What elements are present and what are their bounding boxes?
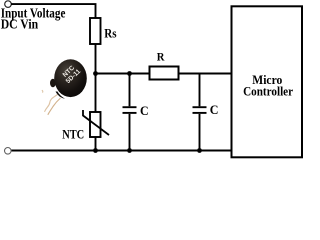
svg-text:DC Vin: DC Vin bbox=[1, 17, 39, 32]
svg-text:R: R bbox=[157, 50, 165, 64]
resistor Rs bbox=[90, 18, 101, 44]
svg-text:Rs: Rs bbox=[104, 27, 116, 41]
wire: node A to resistor R bbox=[96, 73, 151, 75]
junction dot NTC-ground bbox=[93, 148, 98, 153]
input terminal (open circle top-left) bbox=[5, 1, 12, 8]
wire: input terminal to resistor Rs top bbox=[11, 4, 96, 18]
svg-text:C: C bbox=[210, 102, 219, 117]
wire: Rs bottom to NTC symbol top (through node A) bbox=[95, 44, 97, 112]
junction dot C2-ground bbox=[197, 148, 202, 153]
junction node A dot (Rs/NTC/mid wire) bbox=[93, 71, 98, 76]
svg-text:NTC: NTC bbox=[62, 127, 84, 141]
micro controller box U1 bbox=[232, 6, 303, 157]
junction dot C1 top bbox=[127, 71, 132, 76]
capacitor C1 bbox=[123, 74, 137, 151]
junction dot C1-ground bbox=[127, 148, 132, 153]
ground terminal (open circle bottom-left) bbox=[5, 148, 12, 155]
wire: NTC symbol to ground rail bbox=[95, 137, 97, 151]
svg-text:C: C bbox=[140, 103, 149, 118]
label Micro Controller bbox=[243, 73, 293, 99]
thermistor photo (NTC disc with leads) bbox=[42, 59, 87, 115]
resistor R bbox=[150, 67, 179, 80]
svg-text:Controller: Controller bbox=[243, 85, 293, 99]
thermistor NTC symbol bbox=[83, 110, 109, 137]
capacitor C2 bbox=[193, 74, 207, 151]
wire: R to micro controller bbox=[179, 73, 232, 75]
label Input Voltage / DC Vin bbox=[1, 5, 66, 31]
ground rail bbox=[11, 150, 231, 152]
